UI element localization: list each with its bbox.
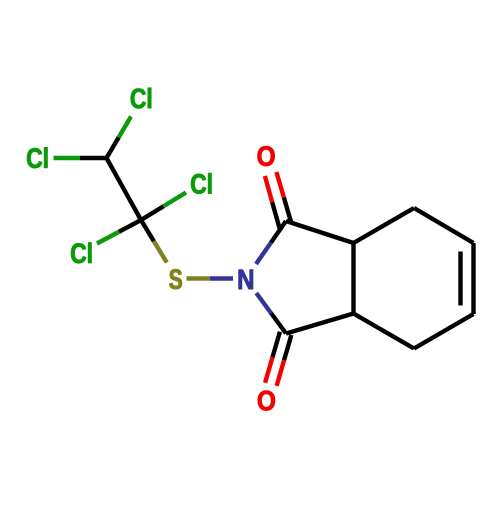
- double bond C5=C6 inner line: [458, 252, 462, 306]
- bond C1'-Cl4 (black half): [119, 220, 141, 232]
- bond N-C3 (blue half): [256, 293, 271, 313]
- bond C2'-Cl1 (black half): [107, 137, 119, 158]
- bond C3-C3a: [286, 314, 354, 334]
- bond N-C1 (blue half): [256, 243, 271, 265]
- atom label Cl3: [191, 173, 211, 194]
- double bond C3=O3 left line (red half): [265, 357, 272, 383]
- bond N-C3 (black half): [271, 313, 286, 333]
- double bond C3=O3 right line (red half): [277, 360, 284, 386]
- bond N-C1 (black half): [271, 221, 286, 243]
- atom label O3 (bottom): [258, 391, 275, 411]
- bond Cl2-C2' (black half): [80, 156, 107, 160]
- atom label N: [239, 270, 253, 289]
- bond C7a-C7: [354, 208, 415, 243]
- double bond C3=O3 right line (black half): [284, 335, 291, 361]
- bond Cl2-C2' (green half): [54, 156, 81, 160]
- bond C6-C5: [471, 243, 475, 314]
- double bond C1=O1 left line (black half): [272, 202, 279, 228]
- atom label O1 (top): [258, 146, 275, 166]
- double bond C3=O3 left line (black half): [273, 332, 280, 358]
- atom label Cl1 (top): [131, 88, 151, 109]
- double bond C1=O1 left line (red half): [265, 176, 272, 202]
- atom label S: [169, 269, 182, 289]
- bond C5-C4: [414, 314, 474, 349]
- bond C7a-C3a (ring fusion): [351, 243, 355, 314]
- bond S-N (blue half): [210, 276, 233, 280]
- bond C7-C6: [414, 208, 474, 243]
- bond C1-C7a: [286, 221, 354, 243]
- bond C1'-S (olive half): [154, 241, 167, 262]
- bond C1'-S (black half): [141, 220, 154, 241]
- double bond C1=O1 right line (black half): [284, 198, 292, 224]
- bond C4-C3a: [354, 314, 415, 349]
- bond S-N (olive half): [187, 276, 210, 280]
- bond C1'-Cl3 (green half): [164, 193, 187, 207]
- bond C2'-C1': [107, 158, 142, 220]
- atom label Cl2 (left): [27, 148, 47, 169]
- bond C2'-Cl1 (green half): [119, 117, 131, 138]
- bond C1'-Cl4 (green half): [97, 232, 119, 244]
- atom label Cl4: [71, 243, 91, 264]
- bond C1'-Cl3 (black half): [141, 206, 164, 220]
- double bond C1=O1 right line (red half): [276, 172, 284, 198]
